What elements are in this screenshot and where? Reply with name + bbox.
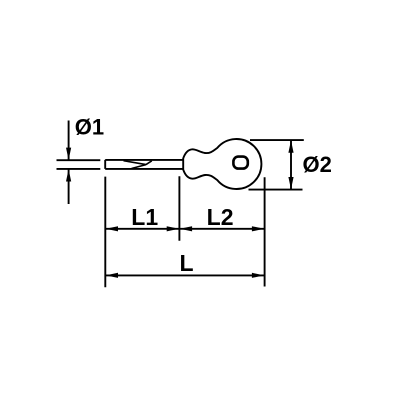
dim Ø1 extension line bottom	[57, 168, 101, 170]
dim L2 right arrow	[252, 226, 264, 231]
blade/shaft outline	[105, 160, 183, 169]
svg-text:L1: L1	[131, 204, 158, 230]
dim L1 dimension line	[105, 228, 179, 230]
dim L left arrow	[106, 273, 118, 278]
dim L dimension line	[105, 274, 264, 276]
dim Ø1 up arrow	[66, 169, 71, 181]
svg-text:Ø2: Ø2	[303, 152, 332, 177]
dim L1 right arrow	[167, 226, 179, 231]
handle outline with ball and neck	[183, 139, 261, 189]
dim L2 left arrow	[180, 226, 192, 231]
svg-text:Ø1: Ø1	[75, 115, 104, 140]
left extension line at tip	[104, 177, 106, 288]
dim L2 dimension line	[179, 228, 264, 230]
dim Ø1 lower leader line	[68, 170, 70, 205]
dim Ø2 extension line bottom	[249, 189, 303, 191]
dim Ø1 extension line top	[57, 159, 101, 161]
dim L right arrow	[252, 273, 264, 278]
handle hole	[233, 157, 247, 169]
middle extension line at blade end	[178, 176, 180, 241]
dim Ø2 down arrow	[288, 177, 293, 189]
svg-text:L2: L2	[207, 204, 234, 230]
svg-text:L: L	[179, 250, 193, 276]
dim L1 left arrow	[106, 226, 118, 231]
dim Ø2 dimension line	[290, 140, 292, 190]
right extension line at handle end	[264, 177, 266, 286]
blade tip grind chevron	[124, 161, 152, 169]
dim Ø1 down arrow	[66, 148, 71, 160]
dim Ø2 up arrow	[288, 140, 293, 152]
dim Ø2 extension line top	[250, 139, 304, 141]
dim Ø1 upper leader line	[68, 121, 70, 160]
